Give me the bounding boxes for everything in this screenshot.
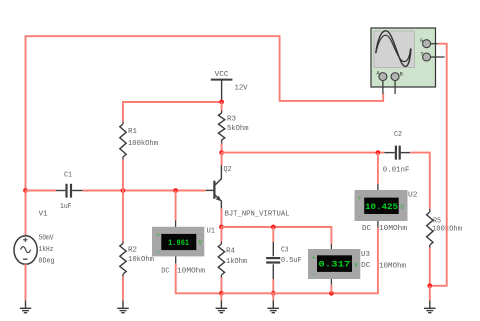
- svg-text:0.01nF: 0.01nF: [383, 166, 410, 174]
- wire scope G to ground rail: [430, 44, 447, 286]
- svg-text:5kOhm: 5kOhm: [227, 125, 249, 133]
- wire scope T stub: [431, 56, 445, 58]
- resistor R2 10kOhm: [120, 244, 126, 275]
- svg-text:10MOhm: 10MOhm: [177, 268, 205, 276]
- svg-text:R4: R4: [226, 247, 235, 255]
- wire R2 top lead: [122, 191, 124, 242]
- node input junction at V1/C1: [23, 188, 28, 193]
- node junction R1/R2 divider: [121, 188, 126, 193]
- wire U2 bottom lead: [377, 221, 379, 228]
- wire C3 ground stub: [272, 293, 274, 300]
- ground at R4: [216, 300, 228, 312]
- svg-text:12V: 12V: [235, 84, 249, 92]
- wire collector net to C2: [222, 152, 385, 154]
- wire Q2 collector lead: [221, 153, 223, 166]
- wire R4 top lead: [220, 227, 222, 242]
- svg-text:BJT_NPN_VIRTUAL: BJT_NPN_VIRTUAL: [225, 210, 290, 218]
- node junction R5 ground: [427, 283, 432, 288]
- wire U3 top stub: [330, 244, 332, 249]
- capacitor C3 0.5uF: [266, 242, 280, 279]
- svg-text:V: V: [354, 262, 358, 269]
- svg-text:100kOhm: 100kOhm: [128, 140, 158, 148]
- wire R3 top lead: [221, 102, 223, 111]
- oscilloscope trace inner: [376, 35, 411, 61]
- svg-text:-: -: [312, 272, 316, 280]
- svg-text:1kOhm: 1kOhm: [226, 258, 247, 266]
- svg-text:0Deg: 0Deg: [39, 258, 55, 266]
- svg-text:R3: R3: [227, 115, 236, 123]
- svg-text:+: +: [358, 195, 362, 202]
- svg-text:C2: C2: [394, 131, 402, 139]
- svg-text:V: V: [400, 204, 404, 211]
- svg-text:DC: DC: [362, 225, 372, 233]
- ground at R5: [424, 300, 436, 312]
- oscilloscope XSC1 body: [371, 28, 436, 87]
- svg-text:1kHz: 1kHz: [39, 246, 54, 254]
- wire scope B stub: [394, 81, 396, 94]
- wire base net C1 to Q2 base: [83, 190, 206, 192]
- capacitor C1 1uF: [56, 184, 83, 198]
- node junction U1 tap: [173, 188, 178, 193]
- svg-text:10kOhm: 10kOhm: [128, 256, 154, 264]
- svg-text:DC: DC: [361, 262, 371, 270]
- svg-text:-: -: [358, 213, 362, 221]
- wire U1 bottom lead to rail: [175, 256, 177, 263]
- wire R5 ground stub: [429, 286, 431, 301]
- oscilloscope terminal B: [391, 73, 399, 81]
- resistor R4 1kOhm: [218, 244, 224, 275]
- wire U3 bottom lead: [330, 279, 332, 285]
- multimeter U3: [308, 249, 360, 280]
- oscilloscope terminal A: [379, 73, 387, 81]
- wire R5 bottom lead: [429, 248, 431, 286]
- svg-text:R1: R1: [128, 128, 137, 136]
- svg-text:-: -: [156, 250, 160, 258]
- svg-text:U2: U2: [408, 191, 418, 199]
- node junction C3 top: [271, 225, 276, 230]
- wire Q2 emitter lead: [220, 209, 222, 227]
- node junction collector: [219, 150, 224, 155]
- wire V1 bottom lead: [25, 264, 27, 300]
- wire R4 bottom lead: [220, 278, 222, 294]
- oscilloscope terminal T: [423, 53, 431, 61]
- ground at R2: [117, 300, 129, 312]
- wire emitter net to U3: [221, 227, 331, 244]
- node junction C3 ground: [271, 291, 276, 296]
- svg-text:+: +: [312, 255, 316, 262]
- svg-text:1.061: 1.061: [168, 240, 189, 248]
- multimeter U1: [152, 227, 204, 258]
- wire C1 left lead: [26, 190, 56, 192]
- svg-text:U3: U3: [361, 251, 370, 259]
- svg-text:10MOhm: 10MOhm: [379, 263, 406, 271]
- svg-text:V1: V1: [39, 210, 48, 218]
- svg-text:Q2: Q2: [224, 166, 232, 174]
- wire R1 top to VCC rail: [123, 102, 222, 122]
- wire scope A stub: [382, 81, 384, 94]
- svg-text:0.5uF: 0.5uF: [281, 257, 302, 265]
- svg-text:50mV: 50mV: [39, 235, 55, 243]
- svg-text:G: G: [420, 38, 423, 44]
- svg-text:1uF: 1uF: [60, 203, 72, 211]
- svg-text:V: V: [198, 240, 202, 247]
- wire V1 top lead: [25, 191, 27, 237]
- oscilloscope terminal G: [423, 40, 431, 48]
- wire C2 to R5 top: [410, 153, 430, 209]
- svg-text:VCC: VCC: [215, 71, 230, 79]
- svg-text:10.425: 10.425: [365, 204, 398, 212]
- resistor R5 100kOhm: [427, 212, 433, 245]
- svg-text:C3: C3: [281, 246, 289, 254]
- svg-text:DC: DC: [161, 268, 170, 276]
- svg-text:C1: C1: [64, 172, 72, 180]
- svg-text:R2: R2: [128, 246, 137, 254]
- svg-text:10MOhm: 10MOhm: [379, 225, 407, 233]
- power VCC symbol: [211, 80, 233, 100]
- oscilloscope trace outer: [376, 31, 411, 67]
- wire R1 bottom lead: [122, 160, 124, 191]
- transistor Q2 BJT NPN: [206, 166, 222, 209]
- ground at C3: [268, 300, 280, 312]
- node junction R4 ground: [219, 291, 224, 296]
- multimeter U2: [355, 190, 408, 221]
- wire U1 top lead: [175, 191, 177, 221]
- wire scope G stub: [431, 43, 438, 45]
- wire R3 bottom lead: [221, 144, 223, 153]
- node junction U2 tap: [376, 150, 381, 155]
- svg-text:+: +: [156, 232, 160, 239]
- source V1 (AC): [14, 236, 37, 265]
- node junction emitter: [219, 225, 224, 230]
- ground at V1: [20, 300, 32, 312]
- node junction U3 ground: [329, 291, 334, 296]
- wire R4 ground stub: [220, 293, 222, 300]
- node junction VCC: [219, 100, 224, 105]
- wire input net: scope A down-left-up rail to V1/C1 node: [26, 36, 384, 190]
- resistor R1 100kOhm: [120, 124, 126, 157]
- wire C3 bottom lead: [272, 279, 274, 293]
- wire C3 top lead: [272, 227, 274, 242]
- svg-text:R5: R5: [433, 218, 441, 226]
- svg-text:0.317: 0.317: [318, 261, 350, 269]
- wire R2 bottom lead: [122, 277, 124, 301]
- resistor R3 5kOhm: [218, 113, 224, 140]
- svg-text:U1: U1: [207, 227, 216, 235]
- wire bottom rail to U2: [221, 228, 378, 294]
- wire U2 top lead: [377, 153, 379, 184]
- capacitor C2 0.01nF: [384, 146, 410, 160]
